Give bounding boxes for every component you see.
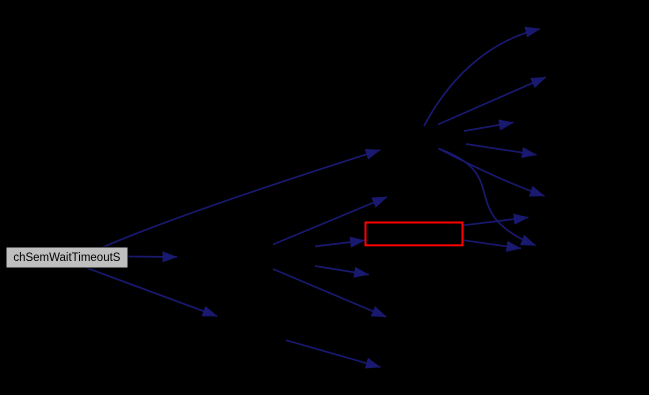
wire E13: node A -> node N5 (slight curve) — [439, 149, 545, 197]
wire E8: node C -> node G — [286, 340, 380, 367]
wire E6: node B -> node E — [315, 266, 369, 275]
wire E1: chSemWaitTimeoutS -> node A — [102, 150, 380, 248]
wire E9: node A -> node N1 (curved) — [424, 29, 540, 126]
svg-text:chSemWaitTimeoutS: chSemWaitTimeoutS — [13, 252, 120, 264]
wire E2: chSemWaitTimeoutS -> node B — [127, 256, 177, 259]
wire E15: red node -> node N6a — [463, 217, 528, 225]
wire E10: node A -> node N2 — [438, 77, 546, 124]
node chSemWaitTimeoutS (grey caller box) — [6, 247, 128, 268]
wire E11: node A -> node N3 — [464, 123, 514, 132]
wire E12: node A -> node N4 — [466, 144, 537, 155]
node red-outlined (truncated callee box) — [366, 223, 463, 246]
wire E5: node B -> red node — [315, 240, 365, 246]
wire E14: node A -> node N6 (long curve down) — [439, 149, 536, 246]
wire E16: red node -> node N6b — [464, 240, 521, 248]
wire E4: node B -> node D — [273, 197, 387, 245]
wire E3: chSemWaitTimeoutS -> node C — [87, 268, 217, 316]
wire E7: node B -> node F — [273, 269, 386, 317]
